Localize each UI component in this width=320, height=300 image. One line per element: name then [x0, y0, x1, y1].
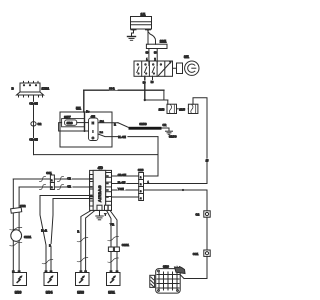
- wire switch pin 30 down: [143, 76, 147, 100]
- squib 8/30: [12, 271, 26, 295]
- wire C91 row1 to 4/9: [13, 176, 89, 181]
- svg-text:OR: OR: [163, 124, 167, 127]
- inline connector C82: [11, 204, 26, 213]
- lamp driver 4/5: [89, 114, 99, 140]
- svg-text:5/1: 5/1: [76, 107, 81, 111]
- inline connector C101: [108, 243, 129, 252]
- battery 1/1: [131, 13, 152, 31]
- diagnostic unit 6/26: [150, 264, 185, 293]
- svg-text:4/9: 4/9: [98, 166, 103, 170]
- svg-text:I: I: [93, 129, 94, 133]
- svg-text:30: 30: [146, 52, 149, 54]
- svg-text:C101: C101: [122, 243, 130, 247]
- svg-text:C2: C2: [196, 213, 200, 217]
- fuse 11/5: [179, 104, 198, 113]
- svg-text:36/36: 36/36: [140, 122, 147, 126]
- svg-text:OR-GN: OR-GN: [29, 139, 38, 142]
- ground terminal 31/90: [166, 131, 177, 138]
- svg-text:6/26: 6/26: [163, 264, 169, 268]
- wire bus to diagnostic unit: [184, 278, 207, 280]
- junction dot feed: [144, 99, 146, 101]
- wire cluster output R: [98, 121, 128, 127]
- wire battery plus diagonal feed: [148, 32, 156, 45]
- svg-text:OR-GN: OR-GN: [118, 174, 127, 177]
- wire OR-GN from 17/11: [29, 97, 158, 155]
- B+ wire inside cluster: [84, 112, 86, 132]
- svg-text:13/1: 13/1: [160, 39, 167, 43]
- svg-text:11/8: 11/8: [159, 107, 165, 111]
- svg-text:1/1: 1/1: [141, 13, 146, 17]
- wire C13 pin3 to diagnostic bus: [144, 189, 208, 279]
- svg-text:OR-GN: OR-GN: [29, 103, 38, 106]
- inline connector C2 lower: [196, 211, 211, 217]
- wire 4/9 to C13 row4: [112, 196, 139, 198]
- SRS control module 4/9: [90, 166, 112, 211]
- wires 4/9 to squib 8/31: [105, 210, 119, 272]
- connector 17/11: [12, 81, 50, 97]
- ignition key symbol 3/1: [177, 55, 200, 75]
- ignition switch pin stub 50: [151, 76, 154, 84]
- svg-text:1: 1: [146, 59, 148, 61]
- connector C91 mid: [46, 171, 54, 190]
- wire between fuses: [177, 108, 189, 110]
- squib 8/34: [44, 271, 58, 295]
- svg-text:Y-R: Y-R: [110, 224, 114, 227]
- svg-text:11/5: 11/5: [179, 107, 185, 111]
- svg-text:C91: C91: [46, 171, 52, 175]
- svg-text:8/31: 8/31: [108, 291, 115, 295]
- wire B+ feed to instrument cluster: [84, 87, 164, 112]
- wire C13 pin1 from OR-GN bus: [144, 175, 159, 177]
- svg-text:C13: C13: [138, 168, 144, 172]
- wire C13 pin2 to fuse bus: [144, 182, 208, 184]
- svg-text:Y-GN: Y-GN: [118, 188, 124, 191]
- svg-text:R: R: [49, 245, 51, 248]
- svg-text:R: R: [114, 123, 116, 126]
- wires 13/1 to ignition switch: [146, 49, 158, 62]
- ignition switch mechanical link: [173, 67, 177, 69]
- squib 8/33: [76, 271, 90, 295]
- svg-text:C: C: [92, 136, 95, 140]
- svg-text:BL-GN: BL-GN: [118, 136, 126, 139]
- shielded cable bar: [129, 122, 162, 130]
- svg-text:C91: C91: [193, 252, 199, 256]
- svg-text:8/30: 8/30: [15, 291, 22, 295]
- svg-text:BL-R: BL-R: [41, 230, 47, 233]
- ground at battery minus: [128, 30, 136, 41]
- ground at 4/9: [96, 210, 103, 219]
- wires 4/9 to squib 8/34: [40, 196, 90, 273]
- wire C91 row2 to 4/9: [19, 184, 90, 189]
- svg-text:AIRBAG: AIRBAG: [97, 185, 102, 202]
- svg-text:GR: GR: [67, 185, 71, 188]
- svg-text:8/33: 8/33: [77, 291, 84, 295]
- wire SRS to driver block: [59, 123, 89, 131]
- ignition switch actuator arrow: [159, 61, 172, 76]
- inline connector C2 on OR-GN wire: [31, 122, 42, 127]
- wire battery plus straight feed: [147, 30, 149, 44]
- svg-text:31/90: 31/90: [169, 134, 177, 138]
- svg-text:B:2: B:2: [100, 132, 104, 134]
- ignition switch 3/1 box: [134, 61, 173, 76]
- wire corner to fuse feed: [145, 90, 168, 104]
- svg-text:OR: OR: [67, 177, 71, 180]
- fuse 11/8: [159, 104, 177, 113]
- squib 8/31: [107, 271, 121, 295]
- terminal block 13/1: [146, 39, 167, 48]
- svg-text:B: B: [12, 86, 15, 90]
- wire OR to ground terminal: [162, 124, 169, 131]
- svg-text:17/11: 17/11: [42, 86, 50, 90]
- inline connector C121: [11, 230, 32, 242]
- instrument cluster 5/1 box: [60, 107, 112, 147]
- svg-text:R: R: [77, 231, 79, 234]
- inline connector C91 lower right: [193, 250, 210, 256]
- connector C13: [138, 168, 144, 200]
- svg-text:Y: Y: [105, 213, 107, 216]
- svg-text:C121: C121: [24, 235, 32, 239]
- wire 4/9 to C13 row3 Y-GN: [112, 187, 139, 191]
- svg-text:8/34: 8/34: [46, 291, 53, 295]
- svg-text:3/1: 3/1: [184, 55, 189, 59]
- svg-text:C2: C2: [38, 122, 42, 126]
- SRS lamp unit 30/7T: [62, 116, 85, 127]
- twisted pair to squib 8/30: [10, 179, 22, 273]
- wire 4/9 to C13 row1 OR-GN: [112, 173, 139, 177]
- wires 4/9 to squib 8/33: [77, 210, 95, 272]
- svg-text:B+: B+: [86, 111, 90, 114]
- wire cluster output BL-GN: [98, 132, 158, 176]
- svg-text:2: 2: [154, 59, 156, 61]
- svg-text:30-R: 30-R: [109, 88, 115, 91]
- wire 4/9 to C13 row2 BL-GN: [112, 181, 139, 185]
- svg-text:SRS: SRS: [67, 121, 73, 125]
- svg-text:BL-GN: BL-GN: [118, 181, 126, 184]
- wire fuse 11/5 to right bus: [193, 98, 207, 184]
- svg-text:50: 50: [151, 82, 154, 84]
- svg-text:H: H: [92, 121, 94, 125]
